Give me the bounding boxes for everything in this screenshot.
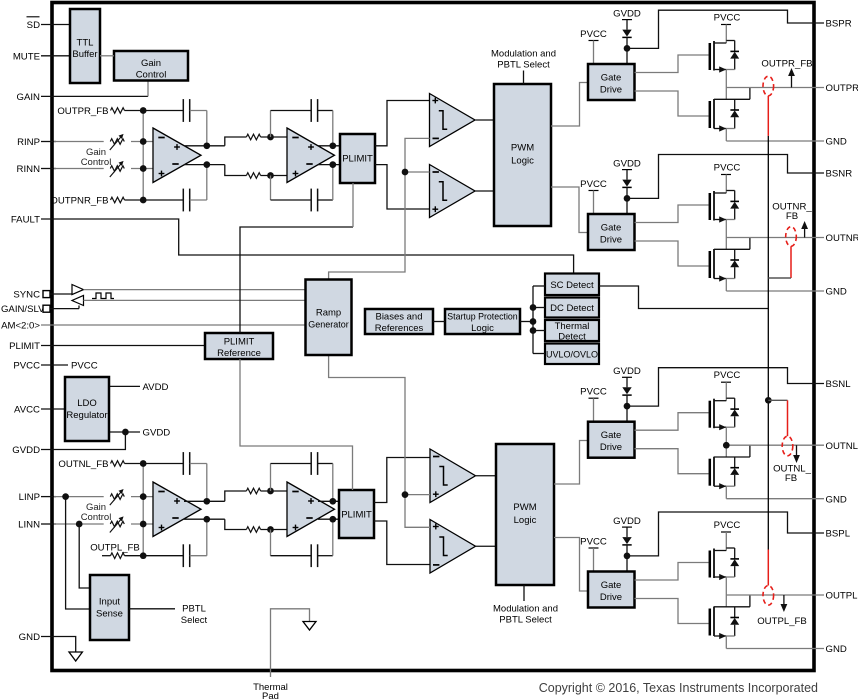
svg-text:Modulation and: Modulation and xyxy=(493,604,558,615)
svg-text:FAULT: FAULT xyxy=(11,215,40,226)
svg-text:GND: GND xyxy=(826,287,847,298)
svg-text:Thermal: Thermal xyxy=(555,321,590,332)
svg-text:PLIMIT: PLIMIT xyxy=(342,154,373,165)
svg-text:PVCC: PVCC xyxy=(714,520,741,531)
svg-text:OUTPR_FB: OUTPR_FB xyxy=(761,59,812,70)
svg-text:AVCC: AVCC xyxy=(14,405,40,416)
svg-text:Control: Control xyxy=(136,70,167,81)
svg-text:PLIMIT: PLIMIT xyxy=(224,337,255,348)
svg-text:PVCC: PVCC xyxy=(580,179,607,190)
svg-text:Gain: Gain xyxy=(141,58,161,69)
svg-text:GVDD: GVDD xyxy=(143,428,171,439)
svg-text:Biases and: Biases and xyxy=(375,312,422,323)
svg-text:GND: GND xyxy=(826,644,847,655)
svg-text:Gate: Gate xyxy=(601,73,622,84)
svg-text:Buffer: Buffer xyxy=(72,49,97,60)
svg-text:Regulator: Regulator xyxy=(66,410,107,421)
svg-text:OUTPL_FB: OUTPL_FB xyxy=(757,616,807,627)
svg-text:PVCC: PVCC xyxy=(580,387,607,398)
svg-text:GAIN/SLV: GAIN/SLV xyxy=(1,304,45,315)
svg-text:OUTNR: OUTNR xyxy=(826,233,858,244)
svg-text:Drive: Drive xyxy=(600,442,622,453)
svg-text:Startup Protection: Startup Protection xyxy=(447,312,518,322)
svg-text:BSNR: BSNR xyxy=(826,169,853,180)
svg-text:GVDD: GVDD xyxy=(613,516,641,527)
svg-text:OUTPL: OUTPL xyxy=(826,591,858,602)
svg-text:DC Detect: DC Detect xyxy=(550,303,594,314)
svg-text:SD: SD xyxy=(27,20,40,31)
svg-text:AVDD: AVDD xyxy=(143,382,169,393)
svg-text:PBTL: PBTL xyxy=(182,604,206,615)
svg-text:PVCC: PVCC xyxy=(714,370,741,381)
svg-text:SYNC: SYNC xyxy=(13,290,40,301)
svg-text:AM<2:0>: AM<2:0> xyxy=(1,321,40,332)
svg-text:GND: GND xyxy=(19,632,40,643)
svg-text:Drive: Drive xyxy=(600,592,622,603)
svg-text:Sense: Sense xyxy=(96,609,123,620)
svg-text:OUTPR_FB: OUTPR_FB xyxy=(57,106,108,117)
svg-text:Detect: Detect xyxy=(558,332,586,343)
svg-text:PVCC: PVCC xyxy=(714,163,741,174)
svg-text:Drive: Drive xyxy=(600,85,622,96)
svg-text:PLIMIT: PLIMIT xyxy=(341,510,372,521)
svg-text:OUTPNR_FB: OUTPNR_FB xyxy=(50,196,108,207)
svg-text:UVLO/OVLO: UVLO/OVLO xyxy=(546,350,598,360)
svg-text:OUTNL_FB: OUTNL_FB xyxy=(58,459,108,470)
svg-text:FB: FB xyxy=(785,473,797,484)
svg-text:PWM: PWM xyxy=(513,502,536,513)
svg-text:Control: Control xyxy=(81,512,112,523)
svg-text:Drive: Drive xyxy=(600,235,622,246)
svg-text:RINN: RINN xyxy=(17,164,41,175)
svg-text:PBTL Select: PBTL Select xyxy=(497,60,550,71)
svg-text:MUTE: MUTE xyxy=(13,51,40,62)
svg-text:LDO: LDO xyxy=(77,398,97,409)
svg-text:PBTL Select: PBTL Select xyxy=(499,615,552,626)
svg-text:GND: GND xyxy=(826,494,847,505)
svg-text:FB: FB xyxy=(786,211,798,222)
svg-text:Generator: Generator xyxy=(308,320,349,330)
svg-text:Reference: Reference xyxy=(217,348,261,359)
svg-text:Control: Control xyxy=(81,157,112,168)
svg-text:TTL: TTL xyxy=(77,38,94,49)
svg-text:GVDD: GVDD xyxy=(613,9,641,20)
svg-text:PVCC: PVCC xyxy=(13,361,40,372)
svg-text:OUTNL: OUTNL xyxy=(826,441,858,452)
svg-text:LINP: LINP xyxy=(19,492,40,503)
svg-text:PVCC: PVCC xyxy=(580,537,607,548)
svg-text:LINN: LINN xyxy=(18,520,40,531)
svg-text:Copyright © 2016, Texas Instru: Copyright © 2016, Texas Instruments Inco… xyxy=(539,681,818,695)
svg-text:Ramp: Ramp xyxy=(316,308,341,319)
svg-text:BSPL: BSPL xyxy=(826,529,851,540)
svg-text:Modulation and: Modulation and xyxy=(491,49,556,60)
svg-text:Gate: Gate xyxy=(601,580,622,591)
svg-text:PWM: PWM xyxy=(511,143,534,154)
svg-text:Logic: Logic xyxy=(471,323,494,334)
svg-text:GND: GND xyxy=(826,137,847,148)
svg-text:BSNL: BSNL xyxy=(826,379,852,390)
svg-text:OUTPR: OUTPR xyxy=(826,83,858,94)
svg-text:SC Detect: SC Detect xyxy=(550,280,594,291)
svg-text:PLIMIT: PLIMIT xyxy=(9,341,40,352)
svg-text:Input: Input xyxy=(99,597,120,608)
svg-text:PVCC: PVCC xyxy=(714,13,741,24)
svg-text:Logic: Logic xyxy=(511,156,534,167)
svg-text:GVDD: GVDD xyxy=(613,366,641,377)
svg-text:Gate: Gate xyxy=(601,223,622,234)
svg-text:Gate: Gate xyxy=(601,430,622,441)
svg-text:PVCC: PVCC xyxy=(580,29,607,40)
svg-text:BSPR: BSPR xyxy=(826,19,852,30)
svg-text:Pad: Pad xyxy=(262,691,279,700)
svg-text:Logic: Logic xyxy=(514,515,537,526)
svg-text:Select: Select xyxy=(181,615,208,626)
svg-text:GVDD: GVDD xyxy=(613,159,641,170)
svg-text:GVDD: GVDD xyxy=(12,445,40,456)
svg-text:OUTPL_FB: OUTPL_FB xyxy=(90,543,140,554)
svg-text:PVCC: PVCC xyxy=(71,361,98,372)
svg-text:RINP: RINP xyxy=(17,137,40,148)
svg-text:GAIN: GAIN xyxy=(17,92,41,103)
svg-text:References: References xyxy=(375,323,424,334)
